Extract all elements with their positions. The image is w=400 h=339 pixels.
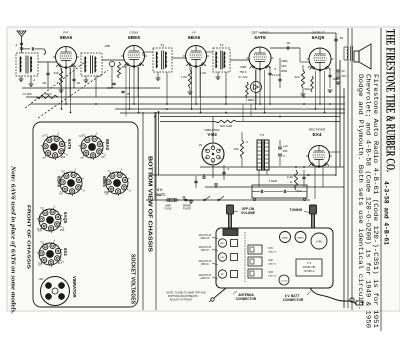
- svg-text:1450 KC: 1450 KC: [268, 276, 277, 278]
- svg-text:.02: .02: [76, 81, 81, 85]
- svg-text:GANG: GANG: [282, 237, 289, 240]
- svg-text:6BA6: 6BA6: [188, 35, 201, 41]
- svg-text:CO-90: CO-90: [281, 281, 288, 283]
- svg-text:100: 100: [233, 147, 238, 151]
- svg-text:25V: 25V: [342, 74, 347, 78]
- svg-text:450: 450: [283, 149, 288, 153]
- svg-text:117: 117: [58, 261, 63, 265]
- svg-text:T1: T1: [161, 44, 165, 48]
- svg-text:PLATE: PLATE: [183, 207, 191, 211]
- svg-text:1480 KC: 1480 KC: [268, 252, 277, 254]
- svg-text:220: 220: [294, 75, 299, 79]
- svg-text:2000: 2000: [281, 69, 288, 73]
- svg-text:T2: T2: [220, 44, 224, 48]
- svg-text:3.52: 3.52: [296, 189, 302, 193]
- svg-text:100: 100: [104, 190, 109, 194]
- svg-text:CV 600: CV 600: [22, 92, 32, 96]
- svg-text:DET-AUDIO: DET-AUDIO: [252, 31, 269, 35]
- svg-text:.02: .02: [286, 41, 291, 45]
- svg-text:250: 250: [60, 228, 65, 232]
- svg-text:FUSE: FUSE: [165, 207, 172, 211]
- svg-text:1400 KC: 1400 KC: [200, 277, 210, 280]
- svg-text:6AT6: 6AT6: [254, 35, 266, 41]
- svg-text:6.3: 6.3: [79, 134, 83, 138]
- svg-text:330: 330: [53, 71, 58, 75]
- svg-text:4-3-58 and 4-B-61: 4-3-58 and 4-B-61: [383, 181, 390, 245]
- svg-text:6BA6: 6BA6: [57, 176, 62, 188]
- svg-text:6AQ5: 6AQ5: [63, 212, 68, 224]
- svg-text:20: 20: [341, 69, 345, 73]
- svg-text:6X4: 6X4: [63, 248, 68, 256]
- svg-text:600 OHM: 600 OHM: [220, 124, 233, 128]
- svg-text:T-4: T-4: [307, 261, 311, 265]
- svg-text:-26: -26: [198, 143, 202, 147]
- svg-text:-5: -5: [274, 67, 277, 71]
- svg-text:T-5: T-5: [260, 133, 265, 137]
- svg-text:+10: +10: [283, 144, 288, 148]
- svg-text:FW-BK OR: FW-BK OR: [303, 266, 316, 269]
- svg-text:47-120: 47-120: [239, 75, 248, 79]
- svg-text:CH1: CH1: [268, 247, 273, 250]
- svg-text:-4: -4: [33, 78, 36, 82]
- svg-text:.0082: .0082: [281, 59, 288, 63]
- svg-text:ADJUST AT FRONT: ADJUST AT FRONT: [170, 299, 193, 302]
- svg-text:6BA6: 6BA6: [105, 139, 110, 151]
- svg-text:Chevrolet; and 4-B-58 (Code 12: Chevrolet; and 4-B-58 (Code 120-O-D200) …: [365, 74, 372, 328]
- svg-text:AC: AC: [101, 155, 105, 159]
- svg-text:6BA6: 6BA6: [60, 35, 73, 41]
- svg-text:747-BK-A: 747-BK-A: [304, 270, 315, 273]
- svg-text:.05: .05: [42, 81, 47, 85]
- svg-text:4 MFD: 4 MFD: [269, 179, 277, 183]
- svg-text:Dodge and Plymouth. Both sets: Dodge and Plymouth. Both sets use identi…: [357, 74, 364, 310]
- svg-text:VOLUME: VOLUME: [241, 211, 256, 215]
- svg-text:.0082: .0082: [240, 65, 247, 69]
- svg-text:CONNECTOR: CONNECTOR: [283, 298, 304, 302]
- svg-text:560: 560: [304, 87, 309, 91]
- svg-text:V.: V.: [283, 154, 286, 158]
- svg-text:6AQ5: 6AQ5: [312, 35, 325, 41]
- svg-text:VIBRATOR: VIBRATOR: [72, 276, 77, 297]
- svg-text:BATT.: BATT.: [156, 193, 165, 197]
- svg-text:CH2: CH2: [268, 259, 273, 262]
- svg-text:FRONT OF CHASSIS: FRONT OF CHASSIS: [26, 205, 32, 270]
- svg-text:V-90: V-90: [316, 240, 322, 244]
- svg-text:I-F: I-F: [192, 31, 196, 35]
- svg-text:12.6: 12.6: [36, 227, 42, 231]
- svg-text:-20B: -20B: [104, 44, 110, 48]
- svg-text:Note: 6AV6 used in place of 6A: Note: 6AV6 used in place of 6AT6 on some…: [10, 165, 17, 315]
- svg-text:EX4: EX4: [312, 132, 321, 138]
- svg-text:1.5K: 1.5K: [200, 71, 206, 75]
- svg-text:6BE6: 6BE6: [102, 176, 107, 187]
- svg-text:Firestone Auto Radio 4-B-61 (C: Firestone Auto Radio 4-B-61 (Code 120-)-…: [372, 74, 379, 328]
- svg-text:BOTTOM VIEW OF CHASSIS: BOTTOM VIEW OF CHASSIS: [147, 156, 153, 253]
- svg-text:# 4-120: # 4-120: [272, 73, 281, 77]
- svg-text:6AT6: 6AT6: [67, 139, 72, 150]
- svg-text:TUNING: TUNING: [290, 208, 303, 212]
- svg-text:-4: -4: [15, 43, 18, 47]
- svg-text:2.2K: 2.2K: [287, 175, 293, 179]
- svg-text:OFF: OFF: [281, 64, 287, 68]
- svg-text:ANT: ANT: [220, 242, 225, 245]
- svg-text:6V: 6V: [40, 277, 43, 281]
- svg-text:250: 250: [61, 155, 66, 159]
- svg-text:SOCKET VOLTAGES: SOCKET VOLTAGES: [130, 254, 136, 305]
- svg-text:1.5K: 1.5K: [181, 75, 187, 79]
- svg-text:GANG: GANG: [297, 237, 304, 240]
- svg-text:RECTIFIER: RECTIFIER: [309, 128, 326, 132]
- svg-text:1 MEG: 1 MEG: [246, 98, 255, 102]
- svg-text:750 K: 750 K: [239, 70, 246, 74]
- svg-text:1480 KC: 1480 KC: [268, 264, 277, 266]
- svg-text:6BE6: 6BE6: [128, 35, 140, 41]
- svg-text:455 KC: 455 KC: [201, 263, 209, 266]
- svg-text:R-F: R-F: [63, 31, 68, 35]
- svg-text:6.3: 6.3: [38, 261, 42, 265]
- svg-text:6 V.: 6 V.: [157, 188, 163, 192]
- svg-text:CONV: CONV: [130, 31, 140, 35]
- svg-text:600 KC: 600 KC: [201, 249, 209, 252]
- svg-text:V-B3: V-B3: [207, 132, 217, 137]
- svg-text:OUTPUT: OUTPUT: [312, 31, 325, 35]
- svg-text:CH3: CH3: [268, 271, 273, 274]
- svg-text:1 MEG: 1 MEG: [42, 92, 52, 96]
- svg-text:CONNECTOR: CONNECTOR: [236, 297, 257, 301]
- svg-text:250: 250: [308, 65, 313, 69]
- svg-text:OSC: OSC: [220, 257, 225, 259]
- svg-text:THE FIRESTONE TIRE & RUBBER CO: THE FIRESTONE TIRE & RUBBER CO.: [384, 29, 399, 172]
- svg-text:1600 KC: 1600 KC: [200, 237, 210, 240]
- svg-text:.25: .25: [339, 36, 344, 40]
